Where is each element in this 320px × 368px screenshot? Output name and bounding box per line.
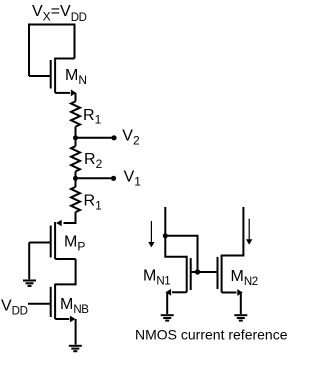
svg-text:V2: V2 [122,128,140,148]
net label VX=VDD [32,3,87,24]
wire: R2 to node V1 [75,171,77,187]
svg-text:MN: MN [65,67,87,87]
wire: V2 tap [76,137,113,139]
ground (MN2 source) [234,315,247,320]
current arrow (left branch) [148,221,154,247]
label MNB [60,296,89,316]
wire: MN gate-drain tie loop [29,25,75,77]
caption: NMOS current reference [135,327,288,343]
transistor MNB [28,284,75,323]
label V1 [124,169,142,189]
svg-text:R2: R2 [84,151,103,171]
svg-text:R1: R1 [84,192,103,212]
node: MN1 drain junction [163,233,168,238]
label MN [65,67,87,87]
wire: MN1 source to ground [166,292,168,314]
label MP [64,233,85,253]
transistor MP [29,220,75,259]
label R1 (bottom) [84,192,103,212]
node V1 junction [73,176,78,181]
resistor R1 (bottom) [71,187,80,212]
svg-text:MP: MP [64,233,85,253]
wire: MN1 diode tie (drain to gate) [165,236,197,272]
wire: R1 down to MP source [64,212,76,223]
resistor R2 [71,146,80,171]
transistor MN2 [218,255,243,296]
current arrow (right branch) [246,219,252,245]
wire: MNB source to ground [75,319,77,345]
svg-text:V1: V1 [124,169,142,189]
label MN1 [143,268,170,288]
wire: MN2 source to ground [240,293,242,315]
wire: MP gate to ground [28,243,30,280]
svg-text:VX=VDD: VX=VDD [32,3,87,24]
wire: R1 to node V2 [75,127,77,147]
svg-text:NMOS current reference: NMOS current reference [135,327,288,343]
svg-text:MNB: MNB [60,296,89,316]
node V2 terminal dot [111,135,116,140]
node V1 terminal dot [111,176,116,181]
wire: MN source down to R1 [75,93,77,102]
wire: V1 tap [76,177,112,179]
label V2 [122,128,140,148]
ground (MN1 source) [161,315,174,320]
transistor MN [29,58,76,97]
wire: MN1 drain branch [165,207,186,257]
wire: MP drain to MNB drain [55,259,76,284]
label R1 (top) [83,107,102,127]
transistor MN1 (mirrored) [166,256,218,296]
ground (MP gate) [23,281,36,286]
svg-text:R1: R1 [83,107,102,127]
node V2 junction [73,135,78,140]
ground (MNB source) [69,346,82,351]
svg-text:VDD: VDD [1,297,28,317]
wire: MN2 drain branch [222,207,244,256]
svg-text:MN2: MN2 [231,268,258,288]
label MN2 [231,268,258,288]
label R2 [84,151,103,171]
resistor R1 (top) [71,101,80,126]
label VDD (MNB gate) [1,297,28,317]
svg-text:MN1: MN1 [143,268,170,288]
node: MN1 gate junction [195,269,200,274]
